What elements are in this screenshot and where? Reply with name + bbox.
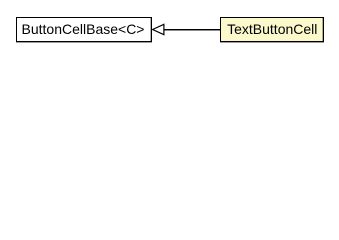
- hollow triangle arrowhead: [153, 24, 164, 34]
- inheritance arrow: [0, 0, 339, 59]
- class box TextButtonCell (highlighted): [220, 17, 324, 42]
- class box ButtonCellBase<C>: [16, 17, 152, 42]
- wire: connector line: [164, 29, 221, 30]
